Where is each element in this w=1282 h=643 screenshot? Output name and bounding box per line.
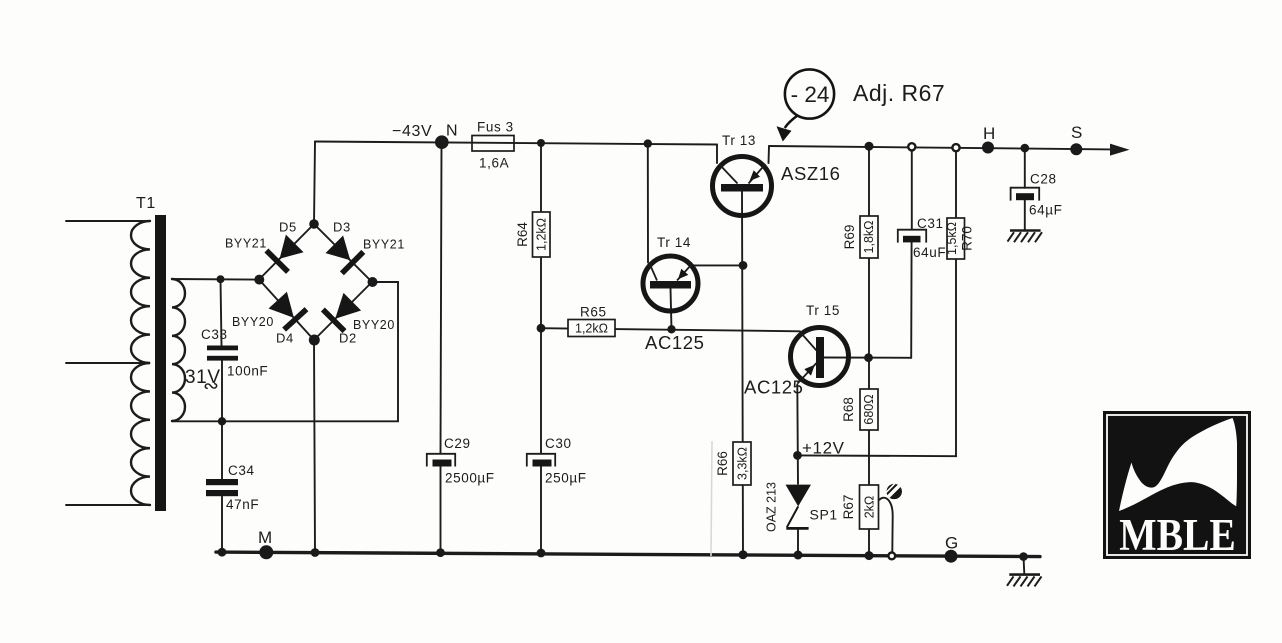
svg-text:−43V: −43V <box>392 123 432 140</box>
svg-text:D2: D2 <box>339 331 357 346</box>
svg-text:C33: C33 <box>201 327 228 342</box>
svg-text:680Ω: 680Ω <box>862 394 876 424</box>
svg-text:S: S <box>1071 123 1083 142</box>
svg-text:D4: D4 <box>276 331 294 346</box>
svg-text:C30: C30 <box>545 436 572 451</box>
svg-text:G: G <box>945 534 959 553</box>
svg-text:D3: D3 <box>333 220 351 235</box>
svg-text:D5: D5 <box>279 220 297 235</box>
svg-text:1,6A: 1,6A <box>479 156 509 171</box>
svg-text:R65: R65 <box>580 305 607 320</box>
svg-text:∾: ∾ <box>203 376 220 397</box>
svg-text:AC125: AC125 <box>645 332 705 353</box>
svg-text:Fus 3: Fus 3 <box>477 120 514 135</box>
svg-text:2kΩ: 2kΩ <box>863 496 877 519</box>
svg-text:R69: R69 <box>842 225 857 250</box>
svg-text:1,5kΩ: 1,5kΩ <box>945 222 959 255</box>
svg-text:Tr 13: Tr 13 <box>722 133 756 148</box>
svg-text:BYY20: BYY20 <box>232 315 274 329</box>
svg-text:OAZ 213: OAZ 213 <box>765 482 779 532</box>
svg-text:MBLE: MBLE <box>1119 511 1236 561</box>
svg-text:C31: C31 <box>917 216 944 231</box>
svg-text:1,2kΩ: 1,2kΩ <box>535 218 549 251</box>
svg-text:BYY21: BYY21 <box>225 237 267 251</box>
svg-text:ASZ16: ASZ16 <box>781 163 841 184</box>
svg-text:3,3kΩ: 3,3kΩ <box>736 447 750 480</box>
svg-text:100nF: 100nF <box>227 364 268 379</box>
svg-text:C34: C34 <box>228 463 255 478</box>
svg-text:2500µF: 2500µF <box>445 471 495 486</box>
svg-text:N: N <box>446 123 458 140</box>
svg-text:R68: R68 <box>841 397 856 422</box>
svg-text:+12V: +12V <box>802 439 845 458</box>
svg-text:Tr 14: Tr 14 <box>657 235 691 250</box>
svg-text:Adj. R67: Adj. R67 <box>853 80 945 106</box>
svg-text:SP1: SP1 <box>810 507 838 523</box>
svg-text:AC125: AC125 <box>744 377 804 398</box>
svg-text:64µF: 64µF <box>1029 203 1062 218</box>
svg-text:- 24: - 24 <box>791 82 830 107</box>
svg-text:R67: R67 <box>841 495 856 520</box>
svg-text:H: H <box>983 124 996 143</box>
svg-text:BYY21: BYY21 <box>363 238 405 252</box>
svg-text:250µF: 250µF <box>545 471 587 486</box>
svg-text:C29: C29 <box>444 436 471 451</box>
svg-text:64uF: 64uF <box>913 245 946 260</box>
svg-text:R70: R70 <box>960 226 975 251</box>
svg-text:T1: T1 <box>136 195 156 212</box>
svg-text:1,8kΩ: 1,8kΩ <box>862 221 876 254</box>
svg-text:BYY20: BYY20 <box>353 318 395 332</box>
svg-text:1,2kΩ: 1,2kΩ <box>575 322 608 336</box>
svg-text:M: M <box>258 528 273 547</box>
svg-text:R64: R64 <box>515 222 530 247</box>
svg-text:Tr 15: Tr 15 <box>806 303 840 318</box>
svg-text:R66: R66 <box>715 451 730 476</box>
svg-text:C28: C28 <box>1030 172 1057 187</box>
svg-text:47nF: 47nF <box>226 497 259 512</box>
